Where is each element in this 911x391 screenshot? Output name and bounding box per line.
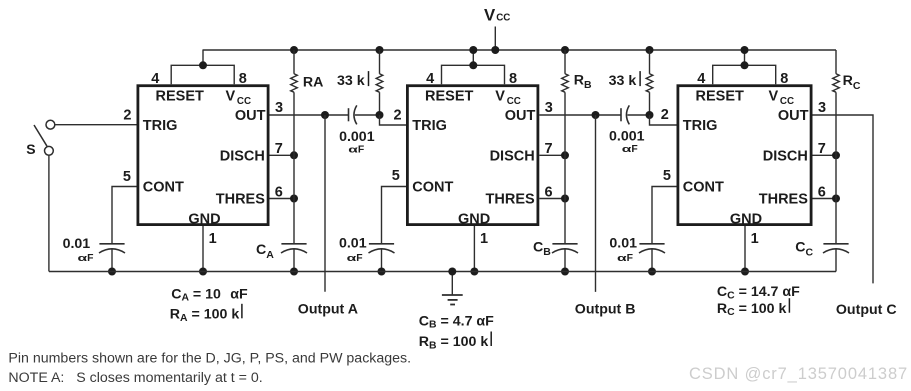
wire cap to 33k B bbox=[627, 114, 649, 116]
node RA top bbox=[290, 46, 298, 54]
pin label RESET UA bbox=[156, 89, 204, 105]
pin label TRIG UC bbox=[683, 118, 718, 134]
svg-text:1: 1 bbox=[751, 231, 759, 247]
label 0.01uF C bbox=[609, 236, 637, 265]
pin 3 UB bbox=[545, 100, 553, 116]
wire 0.01uF C to ground rail bbox=[651, 248, 653, 271]
pin 7 UB bbox=[545, 141, 553, 157]
node 33k-1 top bbox=[376, 46, 384, 54]
label CA value bbox=[171, 286, 248, 303]
capacitor 0.01uF A bbox=[99, 244, 125, 253]
svg-text:TRIG: TRIG bbox=[143, 118, 178, 134]
wire OUT UA bbox=[270, 114, 349, 116]
wire cap to 33k A bbox=[355, 114, 380, 116]
pin label GND UA bbox=[188, 212, 220, 228]
wire OUT UB bbox=[539, 114, 621, 116]
svg-text:CC: CC bbox=[237, 96, 251, 107]
capacitor 0.01uF C bbox=[639, 244, 665, 253]
svg-text:33 k: 33 k bbox=[609, 73, 637, 89]
wire switch to TRIG U A bbox=[55, 124, 137, 126]
node 33k bottom junction B bbox=[646, 111, 654, 119]
svg-text:αF: αF bbox=[622, 144, 638, 155]
wire CA to ground rail bbox=[293, 248, 295, 271]
node 0.01uF B ground junction bbox=[378, 268, 386, 276]
svg-text:CONT: CONT bbox=[683, 179, 724, 195]
pin label THRES UB bbox=[486, 192, 535, 208]
label 33k 1 bbox=[337, 71, 369, 89]
resistor RA bbox=[291, 74, 298, 92]
svg-text:RESET: RESET bbox=[156, 89, 204, 105]
node CA ground junction bbox=[290, 268, 298, 276]
pin label DISCH UA bbox=[220, 148, 265, 164]
switch S bbox=[34, 120, 55, 155]
label Output C bbox=[836, 302, 897, 318]
wire THRES stub UA bbox=[270, 198, 295, 200]
svg-text:3: 3 bbox=[545, 100, 553, 116]
node 0.01uF A ground junction bbox=[108, 268, 116, 276]
wire reset-vcc jumper UC bbox=[713, 65, 776, 84]
svg-text:4: 4 bbox=[426, 71, 434, 87]
wire Vcc lead bbox=[494, 27, 496, 51]
pin 2 U A bbox=[123, 108, 131, 124]
op-amp timer UB body bbox=[407, 86, 538, 225]
svg-text:CC: CC bbox=[780, 96, 794, 107]
resistor 33k A lead top bbox=[379, 50, 381, 74]
svg-text:8: 8 bbox=[509, 71, 517, 87]
node GND rail junction UB bbox=[470, 268, 478, 276]
resistor RB lead top bbox=[564, 50, 566, 74]
pin label OUT UC bbox=[778, 108, 809, 124]
svg-text:2: 2 bbox=[661, 107, 669, 123]
pin 5 U A bbox=[123, 169, 131, 185]
svg-text:5: 5 bbox=[392, 168, 400, 184]
svg-text:TRIG: TRIG bbox=[683, 118, 718, 134]
wire OUT U C bbox=[813, 115, 874, 283]
svg-text:4: 4 bbox=[151, 71, 159, 87]
svg-text:OUT: OUT bbox=[505, 108, 536, 124]
resistor RC bbox=[833, 74, 840, 92]
label RA bbox=[303, 74, 324, 90]
svg-text:5: 5 bbox=[663, 168, 671, 184]
wire jog to TRIG C bbox=[650, 115, 677, 125]
label CC bbox=[795, 240, 813, 259]
svg-text:αF: αF bbox=[348, 144, 364, 155]
svg-text:V: V bbox=[226, 89, 236, 105]
wire Output A drop bbox=[324, 115, 326, 292]
node CB ground junction bbox=[561, 268, 569, 276]
capacitor 0.01uF B bbox=[369, 244, 395, 253]
node Vcc lead junction bbox=[491, 46, 499, 54]
op-amp timer UA body bbox=[138, 86, 268, 225]
capacitor CA bbox=[281, 244, 307, 253]
svg-text:Pin numbers shown are for the: Pin numbers shown are for the D, JG, P, … bbox=[8, 351, 411, 367]
svg-text:V: V bbox=[484, 6, 496, 25]
wire 33k A lead bottom bbox=[379, 92, 381, 115]
wire GND lead UB bbox=[473, 226, 475, 272]
capacitor 0.001uF A bbox=[349, 105, 357, 124]
svg-text:1: 1 bbox=[480, 231, 488, 247]
pin 2 U C bbox=[661, 107, 669, 123]
svg-text:GND: GND bbox=[730, 212, 762, 228]
pin label VCC UB bbox=[495, 89, 521, 108]
node output drop junction B bbox=[592, 111, 600, 119]
label S bbox=[26, 141, 35, 157]
svg-text:RA: RA bbox=[303, 74, 324, 90]
pin label CONT UB bbox=[412, 179, 453, 195]
pin 4 UC bbox=[697, 71, 705, 87]
pin 8 UA bbox=[239, 71, 247, 87]
wire GND lead UA bbox=[202, 226, 204, 272]
wire rail corner to jumper U A bbox=[202, 50, 204, 65]
node jumper junction UC bbox=[741, 61, 749, 69]
pin label GND UC bbox=[730, 212, 762, 228]
watermark bbox=[689, 365, 908, 383]
svg-text:OUT: OUT bbox=[235, 108, 266, 124]
op-amp timer UC body bbox=[678, 86, 811, 225]
label 0.001uF 2 bbox=[609, 129, 645, 156]
pin label RESET UC bbox=[696, 89, 744, 105]
wire Output B drop bbox=[595, 115, 597, 292]
wire CC to ground rail bbox=[835, 248, 837, 271]
pin label GND UB bbox=[458, 212, 490, 228]
label RA value bbox=[170, 304, 242, 324]
svg-text:V: V bbox=[769, 89, 779, 105]
wire switch to ground rail bbox=[48, 155, 50, 271]
wire 33k B lead bottom bbox=[649, 92, 651, 115]
svg-text:8: 8 bbox=[780, 71, 788, 87]
pin label CONT UC bbox=[683, 179, 724, 195]
node 33k bottom junction A bbox=[376, 111, 384, 119]
svg-text:GND: GND bbox=[188, 212, 220, 228]
pin 4 UA bbox=[151, 71, 159, 87]
svg-text:2: 2 bbox=[123, 108, 131, 124]
pin 6 UB bbox=[545, 185, 553, 201]
label 0.01uF A bbox=[63, 236, 94, 264]
node GND rail junction UC bbox=[741, 268, 749, 276]
svg-text:αF: αF bbox=[347, 253, 363, 264]
pin 1 UA bbox=[209, 231, 217, 247]
pin label TRIG UA bbox=[143, 118, 178, 134]
label RC bbox=[843, 73, 861, 92]
svg-text:0.01: 0.01 bbox=[339, 235, 367, 251]
wire DISCH stub UA bbox=[270, 154, 295, 156]
svg-text:DISCH: DISCH bbox=[220, 148, 265, 164]
svg-text:Output C: Output C bbox=[836, 302, 897, 318]
capacitor 0.001uF B bbox=[621, 105, 629, 124]
resistor RA lead top bbox=[293, 50, 295, 74]
wire 0.01uF A to ground rail bbox=[111, 248, 113, 271]
pin 5 U C bbox=[663, 168, 671, 184]
node jumper junction UB bbox=[469, 61, 477, 69]
svg-text:0.01: 0.01 bbox=[63, 236, 91, 252]
wire reset-vcc jumper UA bbox=[171, 65, 234, 84]
node rail junction UB bbox=[469, 46, 477, 54]
label Output A bbox=[298, 302, 358, 318]
svg-text:0.001: 0.001 bbox=[339, 129, 375, 145]
svg-text:1: 1 bbox=[209, 231, 217, 247]
label 33k 2 bbox=[609, 71, 641, 89]
node 33k-2 top bbox=[646, 46, 654, 54]
Vcc supply label bbox=[484, 6, 510, 25]
node THRES junction UA bbox=[290, 195, 298, 203]
svg-text:5: 5 bbox=[123, 169, 131, 185]
wire 0.01uF B to ground rail bbox=[381, 248, 383, 271]
wire ground rail bbox=[49, 271, 836, 273]
pin label TRIG UB bbox=[412, 118, 447, 134]
svg-text:0.01: 0.01 bbox=[609, 236, 637, 252]
node jumper junction UA bbox=[199, 61, 207, 69]
svg-text:TRIG: TRIG bbox=[412, 118, 447, 134]
label CC value bbox=[717, 284, 800, 301]
node ground junction bbox=[448, 268, 456, 276]
svg-text:CC: CC bbox=[496, 13, 510, 24]
svg-text:OUT: OUT bbox=[778, 108, 809, 124]
wire RB to DISCH/THRES/cap bbox=[564, 92, 566, 244]
pin 8 UB bbox=[509, 71, 517, 87]
node DISCH junction UB bbox=[561, 151, 569, 159]
label CB bbox=[533, 239, 551, 258]
node DISCH junction UC bbox=[832, 151, 840, 159]
pin 1 UC bbox=[751, 231, 759, 247]
label 0.001uF 1 bbox=[339, 129, 375, 156]
svg-text:3: 3 bbox=[818, 100, 826, 116]
svg-text:S: S bbox=[26, 141, 35, 157]
capacitor CB bbox=[552, 244, 578, 253]
node DISCH junction UA bbox=[290, 151, 298, 159]
pin 7 UA bbox=[275, 141, 283, 157]
pin 6 UA bbox=[275, 185, 283, 201]
node THRES junction UB bbox=[561, 195, 569, 203]
pin label THRES UC bbox=[759, 192, 808, 208]
svg-text:CONT: CONT bbox=[412, 179, 453, 195]
svg-text:0.001: 0.001 bbox=[609, 129, 645, 145]
label Output B bbox=[575, 301, 636, 317]
wire RA to DISCH/THRES/cap bbox=[293, 92, 295, 244]
svg-text:αF: αF bbox=[617, 253, 633, 264]
svg-text:33 k: 33 k bbox=[337, 73, 365, 89]
label CB value bbox=[419, 313, 494, 330]
resistor RC lead top bbox=[835, 50, 837, 74]
svg-text:2: 2 bbox=[394, 108, 402, 124]
wire GND lead UC bbox=[744, 226, 746, 272]
svg-text:αF: αF bbox=[78, 253, 94, 264]
note pin numbers bbox=[8, 351, 411, 367]
node THRES junction UC bbox=[832, 195, 840, 203]
svg-text:Output A: Output A bbox=[298, 302, 358, 318]
node rail junction UC bbox=[741, 46, 749, 54]
wire CONT stub UA bbox=[112, 187, 137, 244]
pin 2 U B bbox=[394, 108, 402, 124]
svg-text:CONT: CONT bbox=[143, 179, 184, 195]
wire rail to jumper UB bbox=[472, 50, 474, 65]
svg-text:THRES: THRES bbox=[759, 192, 808, 208]
svg-text:THRES: THRES bbox=[216, 192, 265, 208]
node 0.01uF C ground junction bbox=[648, 268, 656, 276]
resistor 33k B bbox=[646, 74, 653, 92]
pin 6 UC bbox=[818, 185, 826, 201]
wire CB to ground rail bbox=[564, 248, 566, 271]
pin 3 UC bbox=[818, 100, 826, 116]
label CA bbox=[256, 242, 274, 261]
svg-text:Output B: Output B bbox=[575, 301, 636, 317]
pin label DISCH UC bbox=[763, 148, 808, 164]
wire top Vcc rail bbox=[203, 49, 837, 51]
pin 3 UA bbox=[275, 100, 283, 116]
wire DISCH stub UB bbox=[539, 154, 565, 156]
label RC value bbox=[717, 298, 790, 318]
label RB value bbox=[419, 332, 491, 352]
node RB top bbox=[561, 46, 569, 54]
label 0.01uF B bbox=[339, 235, 367, 264]
node output drop junction A bbox=[321, 111, 329, 119]
pin label VCC UC bbox=[769, 89, 795, 108]
wire reset-vcc jumper UB bbox=[442, 65, 505, 84]
pin label OUT UB bbox=[505, 108, 536, 124]
label RB bbox=[574, 72, 592, 91]
resistor 33k A bbox=[376, 74, 383, 92]
resistor RB bbox=[562, 74, 569, 92]
svg-text:NOTE A: S closes momentarily: NOTE A: S closes momentarily at t = 0. bbox=[8, 370, 262, 386]
svg-text:DISCH: DISCH bbox=[490, 148, 535, 164]
node GND rail junction UA bbox=[199, 268, 207, 276]
wire CONT stub UC bbox=[652, 187, 677, 244]
pin 8 UC bbox=[780, 71, 788, 87]
svg-text:DISCH: DISCH bbox=[763, 148, 808, 164]
resistor 33k B lead top bbox=[649, 50, 651, 74]
capacitor CC bbox=[823, 244, 849, 253]
note A bbox=[8, 370, 262, 386]
wire rail to jumper UC bbox=[744, 50, 746, 65]
pin label THRES UA bbox=[216, 192, 265, 208]
pin label CONT UA bbox=[143, 179, 184, 195]
pin label OUT UA bbox=[235, 108, 266, 124]
wire THRES stub UB bbox=[539, 198, 565, 200]
pin 1 UB bbox=[480, 231, 488, 247]
wire DISCH stub UC bbox=[813, 154, 837, 156]
wire THRES stub UC bbox=[813, 198, 837, 200]
svg-text:RESET: RESET bbox=[696, 89, 744, 105]
svg-text:4: 4 bbox=[697, 71, 705, 87]
wire jog to TRIG B bbox=[380, 115, 407, 125]
pin label VCC UA bbox=[226, 89, 252, 108]
wire RC to DISCH/THRES/cap bbox=[835, 92, 837, 244]
svg-text:THRES: THRES bbox=[486, 192, 535, 208]
ground bbox=[442, 272, 463, 305]
wire CONT stub UB bbox=[382, 187, 407, 244]
pin 4 UB bbox=[426, 71, 434, 87]
svg-text:V: V bbox=[495, 89, 505, 105]
svg-text:CSDN @cr7_13570041387: CSDN @cr7_13570041387 bbox=[689, 365, 908, 383]
svg-text:CC: CC bbox=[507, 96, 521, 107]
pin label RESET UB bbox=[425, 89, 473, 105]
pin 5 U B bbox=[392, 168, 400, 184]
pin 7 UC bbox=[818, 141, 826, 157]
svg-text:RESET: RESET bbox=[425, 89, 473, 105]
pin label DISCH UB bbox=[490, 148, 535, 164]
svg-text:8: 8 bbox=[239, 71, 247, 87]
svg-text:3: 3 bbox=[275, 100, 283, 116]
svg-text:GND: GND bbox=[458, 212, 490, 228]
